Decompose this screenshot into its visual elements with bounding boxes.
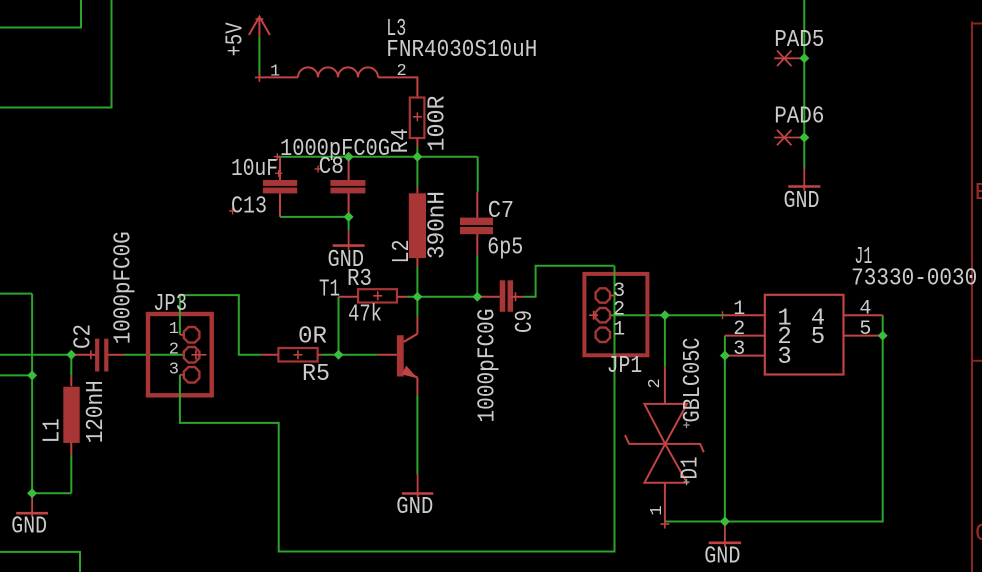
svg-text:+5V: +5V — [222, 22, 249, 56]
svg-text:L1: L1 — [40, 418, 67, 443]
svg-text:5: 5 — [859, 318, 871, 341]
svg-text:1000pFC0G: 1000pFC0G — [474, 309, 501, 423]
svg-text:PAD6: PAD6 — [774, 103, 824, 130]
svg-text:0R: 0R — [298, 324, 327, 351]
svg-text:C2: C2 — [70, 324, 97, 349]
svg-text:E: E — [975, 180, 982, 207]
svg-text:2: 2 — [169, 340, 179, 359]
svg-text:1: 1 — [169, 320, 179, 339]
svg-text:R3: R3 — [347, 266, 372, 293]
svg-text:C8: C8 — [319, 154, 344, 181]
svg-text:47k: 47k — [348, 302, 382, 329]
svg-text:3: 3 — [777, 344, 791, 371]
svg-text:T1: T1 — [319, 277, 340, 304]
svg-text:GND: GND — [396, 494, 433, 521]
svg-text:GND: GND — [704, 544, 740, 571]
svg-text:GND: GND — [784, 188, 820, 215]
svg-text:D1: D1 — [678, 457, 705, 480]
svg-text:R5: R5 — [302, 361, 330, 388]
svg-text:R4: R4 — [388, 128, 415, 153]
svg-text:3: 3 — [733, 338, 745, 361]
svg-text:JP3: JP3 — [153, 291, 187, 318]
svg-text:C9: C9 — [512, 310, 539, 333]
svg-text:120nH: 120nH — [83, 380, 110, 443]
svg-text:2: 2 — [646, 378, 665, 388]
svg-text:2: 2 — [397, 62, 407, 81]
svg-text:3: 3 — [169, 360, 179, 379]
svg-text:1: 1 — [270, 62, 280, 81]
svg-text:C: C — [975, 521, 982, 548]
svg-text:1: 1 — [648, 505, 667, 515]
svg-text:JP1: JP1 — [607, 353, 643, 380]
svg-text:390nH: 390nH — [425, 191, 452, 259]
svg-text:73330-0030: 73330-0030 — [851, 266, 977, 293]
svg-text:GBLC05C: GBLC05C — [680, 338, 707, 423]
svg-text:FNR4030S10uH: FNR4030S10uH — [386, 37, 537, 64]
svg-text:1: 1 — [613, 319, 625, 342]
svg-text:10uF: 10uF — [231, 156, 278, 183]
svg-text:C7: C7 — [488, 198, 514, 225]
svg-text:C13: C13 — [231, 194, 267, 221]
svg-text:PAD5: PAD5 — [774, 27, 824, 54]
svg-text:100R: 100R — [424, 96, 451, 152]
svg-text:5: 5 — [811, 324, 825, 351]
svg-text:L2: L2 — [389, 240, 416, 264]
svg-text:6p5: 6p5 — [487, 235, 523, 262]
svg-text:GND: GND — [11, 513, 47, 540]
svg-text:1000pFC0G: 1000pFC0G — [110, 231, 137, 344]
